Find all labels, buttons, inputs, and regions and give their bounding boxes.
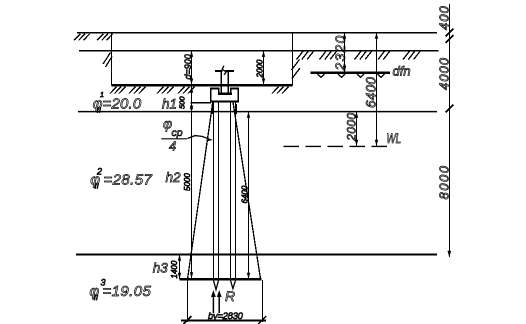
label phi-cp over 4 — [161, 116, 187, 154]
dimension 2320 line — [344, 33, 346, 73]
svg-text:dfn: dfn — [393, 64, 411, 79]
svg-text:400: 400 — [437, 5, 452, 30]
vertical pile 1 edge a — [213, 102, 215, 280]
slope hatch below L2 at right pit wall — [292, 60, 301, 79]
pit right wall — [292, 33, 294, 86]
bottom width dim extension right — [262, 280, 264, 322]
svg-text:h2: h2 — [166, 170, 182, 185]
slope hatch below L2 at left pit wall — [103, 53, 112, 68]
svg-text:500: 500 — [178, 96, 187, 109]
hatch group below L1 left-2 — [97, 34, 113, 41]
dfn V mark 1 — [318, 74, 325, 77]
svg-text:II: II — [94, 293, 98, 302]
layer boundary L5 thick — [76, 253, 437, 255]
hatch group below L2 right g4 — [378, 51, 390, 59]
pit left wall — [111, 33, 113, 86]
arrow down 8000 — [448, 251, 452, 258]
svg-text:WL: WL — [386, 131, 401, 147]
dfn V mark 3 — [357, 74, 364, 77]
hatch group below L2 right g1 — [297, 51, 314, 59]
svg-text:2000: 2000 — [345, 113, 359, 142]
hatch group below pit bottom g2 — [129, 87, 146, 94]
arrow up 500 — [190, 103, 193, 109]
hatch group below pit bottom g4 — [178, 87, 195, 94]
pile cap bottom edge — [210, 101, 239, 103]
dfn V mark 4 — [378, 74, 385, 77]
arrow down 1400 — [178, 273, 181, 279]
arrow up pit2000 — [262, 51, 265, 57]
dimension 2000 right line — [356, 112, 358, 147]
svg-text:h1: h1 — [162, 97, 177, 112]
arrow down 6400r — [375, 140, 378, 146]
column break zigzag — [222, 66, 226, 75]
dimension 6400 pile line — [248, 112, 250, 279]
dimension 6400 right line — [376, 33, 378, 147]
R force arrow left — [211, 290, 216, 313]
left dimension line x192 — [191, 51, 193, 279]
pit bottom thick line — [112, 84, 293, 87]
arrow down 2000r — [355, 140, 358, 146]
hatch group below pit bottom g1 — [110, 87, 126, 94]
svg-text:6400: 6400 — [364, 77, 379, 108]
dfn frost-depth thick line — [310, 71, 390, 73]
pile cap socket floor thick — [218, 93, 232, 95]
svg-text:8000: 8000 — [437, 165, 452, 200]
svg-text:6400: 6400 — [241, 185, 250, 203]
hatch group below L1 left — [74, 34, 90, 41]
arrow up 2320 — [343, 33, 346, 39]
svg-text:1400: 1400 — [170, 260, 179, 278]
vertical pile 2 edge a — [230, 102, 232, 280]
arrow down pit2000 — [262, 78, 265, 84]
pit depth dimension line x263 — [263, 51, 265, 85]
vertical pile 1 edge b — [218, 102, 220, 280]
battered pile left edge — [188, 102, 213, 279]
label phi3 II = 19.05 — [89, 278, 151, 303]
arrow up d900 top — [190, 51, 193, 57]
arrow up 1400 — [178, 255, 181, 261]
svg-text:=20.0: =20.0 — [103, 96, 142, 113]
svg-text:II: II — [97, 106, 101, 115]
bottom width dimension line — [181, 320, 266, 322]
dfn V mark 2 — [338, 74, 345, 77]
R force arrow right — [217, 290, 222, 313]
hatch group below pit bottom g3 — [157, 87, 174, 94]
svg-text:=28.57: =28.57 — [104, 172, 153, 189]
label phi1 II = 20.0 — [93, 92, 142, 115]
ground line L1 (planning level) — [77, 32, 437, 34]
svg-text:2320: 2320 — [332, 35, 348, 72]
column edge right — [227, 72, 229, 93]
cap bottom extension line for 500 dim — [191, 102, 212, 104]
vertical pile 2 edge b — [235, 102, 237, 280]
leader line for phi-cp/4 — [188, 136, 209, 139]
pile head tick right — [235, 104, 237, 114]
svg-text:4000: 4000 — [437, 57, 452, 90]
arrow up 2000r — [355, 112, 358, 118]
column break line — [215, 70, 234, 72]
hatch group below L2 right g2 — [320, 51, 337, 59]
pile tip V right — [231, 280, 236, 288]
label phi2 II = 28.57 — [90, 167, 152, 191]
svg-text:R: R — [225, 288, 235, 304]
column edge left — [220, 72, 222, 93]
pile cap top edge thick left — [210, 88, 220, 90]
arrow up 6400r — [375, 33, 378, 39]
hatch group below L2 right g3 — [355, 51, 372, 59]
arrow down 2320 — [343, 66, 346, 72]
arrow down 500 — [190, 106, 193, 112]
right dim tick at L1 — [446, 29, 454, 37]
arrow up 6400 pile — [247, 112, 250, 118]
right dim tick at L4 — [446, 105, 454, 113]
leader arrowhead phi-cp — [206, 137, 213, 141]
svg-text:2000: 2000 — [256, 59, 265, 78]
svg-text:=19.05: =19.05 — [103, 283, 152, 300]
water level WL dashed line — [284, 145, 388, 147]
right main dimension line — [449, 4, 451, 257]
svg-text:h3: h3 — [153, 261, 169, 276]
hatch group below pit bottom g5 right of cap — [272, 87, 289, 94]
svg-text:II: II — [95, 182, 99, 191]
svg-text:4: 4 — [169, 139, 176, 154]
bottom dim tick left — [183, 316, 191, 324]
hatch group below L2 right g5 — [403, 51, 420, 59]
battered pile right edge — [233, 102, 261, 279]
pile tip plane thick line — [180, 278, 262, 280]
svg-text:2: 2 — [96, 167, 102, 177]
pile tip V left — [214, 280, 219, 289]
bottom width dim extension left — [187, 280, 189, 322]
right dim tick at natural ground — [446, 35, 454, 43]
pile cap top edge thick right — [230, 88, 239, 90]
pile head tick left — [212, 104, 214, 114]
dimension 1400 line — [179, 255, 181, 279]
svg-text:d=900: d=900 — [183, 54, 193, 79]
arrow down 5000 — [190, 272, 193, 278]
svg-text:by=2830: by=2830 — [208, 311, 244, 322]
pile cap outline — [211, 89, 239, 102]
layer boundary L4 — [78, 111, 437, 113]
svg-text:cp: cp — [172, 127, 183, 139]
ground line L2 (natural ground) — [79, 50, 439, 52]
bottom dim tick right — [258, 316, 266, 324]
arrow up below pit bottom — [190, 87, 193, 93]
arrow down 6400 pile — [247, 273, 250, 279]
svg-text:5000: 5000 — [183, 173, 192, 191]
arrow down d900 bottom — [190, 78, 193, 84]
